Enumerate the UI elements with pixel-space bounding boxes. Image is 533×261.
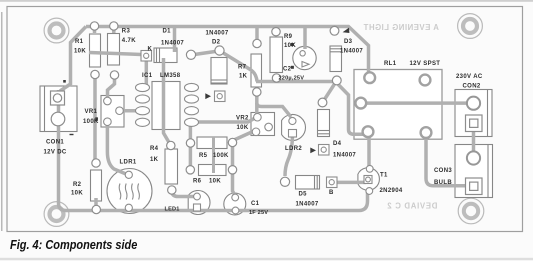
svg-text:K: K — [148, 47, 153, 53]
svg-text:2N2904: 2N2904 — [380, 188, 403, 194]
svg-text:CON1: CON1 — [46, 140, 64, 146]
svg-text:R9: R9 — [284, 34, 293, 40]
wire IC1 pin5 to VR2 — [193, 118, 255, 122]
LED1 body — [188, 190, 210, 214]
svg-text:1N4007: 1N4007 — [296, 202, 319, 208]
pad D4 bottom (square) — [319, 145, 330, 156]
wire D3 top stub — [333, 27, 337, 30]
wire R2 to bottom bus — [94, 198, 98, 208]
svg-text:C2: C2 — [283, 67, 292, 73]
pad D4 top — [318, 98, 327, 107]
svg-text:10K: 10K — [71, 191, 83, 197]
LDR2 pads — [289, 117, 296, 124]
pads R9 — [272, 28, 280, 36]
svg-text:1F 25V: 1F 25V — [249, 210, 268, 216]
transistor T1 pads — [364, 176, 372, 184]
wire R4 to LED1 — [172, 191, 194, 197]
svg-text:LDR1: LDR1 — [120, 160, 137, 166]
wire CON1 down + bottom bus + rise to T1 emitter — [59, 90, 368, 211]
pad D5 cathode (square) — [327, 177, 338, 188]
svg-text:R1: R1 — [75, 39, 84, 45]
pads R6 — [186, 166, 194, 174]
resistor R2 body — [91, 170, 102, 201]
wire R3 top stub — [112, 27, 116, 34]
svg-text:A EVENING LIGHT: A EVENING LIGHT — [363, 23, 439, 32]
mounting hole top-left — [44, 18, 69, 43]
svg-text:IC1: IC1 — [142, 73, 153, 79]
tick CON1 — [70, 134, 74, 135]
svg-text:12V SPST: 12V SPST — [410, 61, 441, 67]
capacitor C2 body — [293, 46, 316, 69]
pads R4 — [167, 141, 175, 149]
connector CON2 body — [455, 90, 492, 137]
svg-text:R3: R3 — [122, 29, 131, 35]
svg-text:R7: R7 — [238, 65, 247, 71]
wire R7 area to R9 to D3 — [256, 80, 333, 84]
resistor R9 body — [270, 37, 283, 73]
wire bus to C2 — [303, 27, 307, 50]
wire R1/R3 link to D1 cathode — [89, 53, 141, 55]
svg-text:230V AC: 230V AC — [456, 74, 483, 80]
svg-text:100K: 100K — [213, 153, 229, 159]
svg-text:DEVIAD C 2: DEVIAD C 2 — [387, 202, 438, 211]
IC1 pin pads — [136, 83, 199, 126]
wire R5 left to R6 left — [189, 145, 193, 168]
resistor R5 body — [197, 137, 227, 149]
connector CON3 body — [455, 145, 493, 198]
diode D1 band — [157, 48, 342, 189]
svg-text:R5: R5 — [199, 153, 208, 159]
mounting hole bottom-left — [44, 202, 69, 227]
relay RL1 body — [354, 70, 442, 140]
svg-text:1N4007: 1N4007 — [206, 31, 229, 37]
svg-text:1K: 1K — [239, 74, 248, 80]
wire relay to T1 collector — [367, 134, 371, 166]
diode D4 band — [318, 130, 330, 132]
preset VR2 pads — [254, 113, 262, 121]
connector CON3 pads — [467, 151, 480, 164]
wire pin5 branch to R5 — [189, 124, 193, 141]
svg-text:10K: 10K — [284, 43, 296, 49]
diode D5 band — [314, 176, 316, 190]
svg-text:1N4007: 1N4007 — [161, 41, 184, 47]
wire left drop to CON1 — [71, 27, 87, 86]
svg-text:B: B — [329, 190, 334, 196]
svg-text:LED1: LED1 — [165, 207, 180, 213]
svg-text:Fig. 4: Components side: Fig. 4: Components side — [10, 237, 138, 252]
svg-text:R4: R4 — [150, 146, 159, 152]
wire R6 right to C1 — [233, 174, 236, 196]
arrow D3 — [343, 28, 350, 33]
wire VR1 wiper to IC1 pin3 — [120, 109, 140, 113]
wire through IC1 to R4 — [164, 58, 171, 145]
op-amp IC1 body — [152, 82, 180, 130]
diode D3 body — [330, 46, 342, 72]
wire D1 anode to D2 to R7 — [191, 52, 215, 56]
wire R3 to VR1 — [108, 71, 115, 99]
svg-text:LM358: LM358 — [160, 73, 181, 79]
wire bus to R9 — [274, 27, 278, 31]
node marker near CON1 — [63, 80, 66, 83]
diode D3 band — [330, 48, 342, 50]
diode D2 band — [211, 79, 227, 81]
pad D3 top — [330, 26, 339, 35]
mounting hole top-right — [458, 14, 483, 39]
wire VR2 to R5 — [234, 131, 254, 140]
svg-text:4.7K: 4.7K — [122, 38, 136, 44]
pads R2 — [92, 159, 100, 167]
svg-text:10K: 10K — [237, 125, 249, 131]
svg-text:VR1: VR1 — [85, 109, 98, 115]
capacitor C1 pads — [232, 194, 239, 201]
transistor T1 body — [358, 168, 380, 191]
wire top supply bus — [86, 27, 369, 74]
wire bus drop through D1 body — [173, 27, 177, 52]
polarity dot C2 — [291, 43, 294, 46]
pads R3 — [110, 22, 118, 30]
pad D5 anode — [280, 177, 289, 186]
svg-text:D5: D5 — [299, 192, 308, 198]
wiper mark VR1 — [95, 117, 98, 121]
svg-text:220µ,25V: 220µ,25V — [279, 76, 305, 82]
preset VR2 body — [251, 113, 275, 136]
svg-text:C1: C1 — [251, 201, 260, 207]
svg-text:D1: D1 — [163, 29, 172, 35]
pad D1 cathode (square) — [141, 51, 337, 188]
mounting hole bottom-right — [458, 198, 484, 224]
resistor R4 body — [165, 149, 178, 184]
svg-text:1N4007: 1N4007 — [333, 153, 356, 159]
scan edge artifacts — [0, 0, 533, 2]
svg-text:BULB: BULB — [434, 180, 452, 186]
preset VR1 body — [101, 96, 124, 128]
wire D5 to T1 base — [336, 181, 366, 185]
pads R1 — [90, 22, 341, 214]
wire relay NO to CON3 — [426, 136, 467, 186]
svg-text:1N4007: 1N4007 — [340, 49, 363, 55]
wire D1 cathode to IC1 pin1 — [145, 58, 149, 86]
svg-text:10K: 10K — [74, 49, 86, 55]
wire VR1 to LDR1 — [107, 122, 126, 174]
LED1 pads — [194, 117, 374, 214]
connector CON1 pads — [51, 91, 65, 126]
svg-text:D4: D4 — [333, 141, 342, 147]
svg-text:100K: 100K — [83, 119, 99, 125]
pad D2 top — [215, 46, 224, 55]
connector CON1 body — [40, 86, 77, 132]
wire R1 top stub — [93, 27, 97, 34]
svg-text:12V DC: 12V DC — [44, 150, 67, 156]
svg-text:VR2: VR2 — [236, 116, 249, 122]
wire R5 right to R6 right — [231, 146, 235, 166]
svg-text:D3: D3 — [344, 39, 353, 45]
wire R1 to R2 — [93, 71, 97, 165]
svg-text:R6: R6 — [193, 179, 202, 185]
pad D2 bottom (square) — [215, 91, 226, 102]
wire relay common to CON2 — [361, 101, 469, 105]
resistor R6 body — [199, 165, 227, 176]
pads R7 — [253, 39, 261, 47]
svg-text:RL1: RL1 — [384, 61, 397, 67]
connector CON2 pads — [467, 97, 480, 110]
wire LDR2 to D5 — [285, 134, 293, 176]
svg-text:1K: 1K — [150, 157, 159, 163]
svg-text:R2: R2 — [73, 182, 82, 188]
svg-text:T1: T1 — [380, 173, 388, 179]
resistor R7 body — [251, 54, 262, 87]
wire R7 to VR2 — [255, 94, 259, 114]
capacitor C1 body — [224, 193, 246, 215]
resistor R1 body — [90, 34, 101, 67]
capacitor C2 pads — [300, 51, 309, 67]
svg-text:LDR2: LDR2 — [285, 146, 302, 152]
pad D1 anode — [186, 50, 195, 59]
diode D2 body — [211, 58, 227, 85]
pads R5 — [186, 139, 194, 147]
svg-text:D2: D2 — [212, 40, 221, 46]
wire D3 to D4 — [324, 84, 335, 101]
svg-text:CON3: CON3 — [434, 168, 452, 174]
LDR1 pads and squiggle — [119, 171, 139, 211]
wire R7/VR2 branch to LDR2 — [257, 103, 291, 117]
diode D1 body — [154, 48, 177, 63]
pad D3 bottom — [332, 76, 341, 85]
wire CON2 to CON3 — [472, 128, 476, 154]
diode D4 body — [318, 110, 330, 137]
LDR2 body — [282, 115, 306, 141]
anode arrow D2 — [205, 93, 211, 99]
wire D3 to relay coil pad — [337, 83, 365, 134]
relay RL1 pads — [355, 72, 431, 138]
svg-text:10K: 10K — [209, 179, 221, 185]
preset VR1 pads — [104, 97, 273, 135]
diode D5 body — [296, 176, 320, 190]
resistor R3 body — [108, 34, 120, 66]
LDR1 body — [107, 169, 152, 214]
anode arrow D4 — [310, 148, 316, 154]
svg-text:CON2: CON2 — [463, 84, 481, 90]
